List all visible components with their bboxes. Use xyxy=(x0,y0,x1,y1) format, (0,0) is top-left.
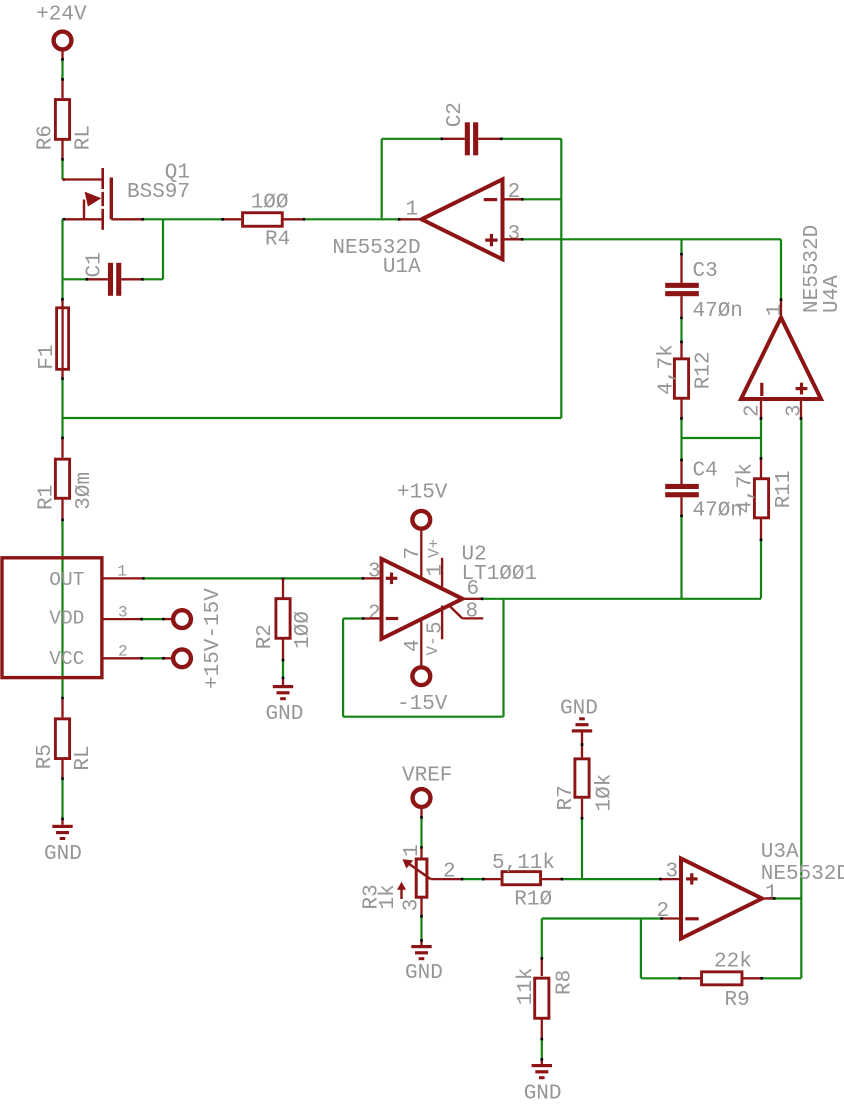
svg-text:6: 6 xyxy=(467,578,480,601)
svg-text:R8: R8 xyxy=(553,970,576,995)
svg-text:V-: V- xyxy=(424,636,442,655)
potentiometer R3 1k xyxy=(420,849,422,858)
resistor R9 22k xyxy=(681,977,700,979)
svg-text:RL: RL xyxy=(72,745,95,770)
resistor R4 100 xyxy=(224,218,241,220)
svg-text:C2: C2 xyxy=(444,102,467,127)
svg-text:R1Ø: R1Ø xyxy=(514,889,552,912)
wire VREF to R3 xyxy=(420,819,422,847)
resistor R5 RL xyxy=(61,699,63,717)
svg-text:3: 3 xyxy=(508,223,521,246)
op-amp U1A NE5532D xyxy=(422,179,503,259)
resistor R6 RL xyxy=(61,81,63,99)
svg-text:R2: R2 xyxy=(254,624,277,649)
svg-text:22k: 22k xyxy=(714,951,752,974)
svg-text:2: 2 xyxy=(368,603,381,626)
wire -input to R9 feedback xyxy=(640,919,642,979)
wire box pin1 to U2 +input xyxy=(145,577,363,579)
svg-text:1: 1 xyxy=(765,883,778,906)
svg-text:C4: C4 xyxy=(693,460,718,483)
svg-text:1: 1 xyxy=(764,304,787,317)
wire Q1 source down to C1/F1 node xyxy=(61,219,63,279)
U2 -input feedback loop xyxy=(364,617,382,619)
wire R4 to U1A input xyxy=(305,218,398,220)
svg-text:U3A: U3A xyxy=(761,841,799,864)
svg-text:GND: GND xyxy=(524,1082,562,1104)
svg-text:+15V: +15V xyxy=(397,482,448,505)
svg-text:C3: C3 xyxy=(693,260,718,283)
svg-text:3: 3 xyxy=(368,561,381,584)
capacitor C3 470n xyxy=(680,239,682,253)
wire F1 to R1 / feedback node xyxy=(61,380,63,437)
svg-text:4,7k: 4,7k xyxy=(734,463,757,513)
wire U4A pin3 down to U3A output node xyxy=(800,420,802,979)
wire R6 to Q1 drain xyxy=(61,161,63,180)
wire U1A pin3 to C3 and U4A xyxy=(523,238,781,240)
svg-text:GND: GND xyxy=(44,843,82,866)
svg-text:R7: R7 xyxy=(555,785,578,810)
ground GND below R8 xyxy=(532,1064,552,1067)
svg-text:R12: R12 xyxy=(692,351,715,389)
svg-text:8: 8 xyxy=(466,601,479,624)
wire C2 right down to pin2 net and long loop xyxy=(560,139,562,418)
wire gate net to R4 xyxy=(144,218,222,220)
op-amp U2 LT1001 xyxy=(420,529,422,579)
svg-text:2: 2 xyxy=(118,642,128,660)
wire R12/C4 node to U4A pin2 xyxy=(682,437,762,439)
svg-text:3Øm: 3Øm xyxy=(73,472,96,510)
ground GND below R2 xyxy=(282,679,284,685)
capacitor C1 xyxy=(64,278,87,280)
svg-text:R6: R6 xyxy=(35,125,58,150)
op-amp U3A NE5532D xyxy=(681,859,762,939)
wire -input down to R8 xyxy=(541,919,543,958)
U4A pin 2 stub xyxy=(760,399,762,418)
wire R9 to output node xyxy=(763,977,801,979)
U1A pin 2 stub xyxy=(503,198,522,200)
svg-text:OUT: OUT xyxy=(49,569,84,591)
U2 pin 8 stub xyxy=(450,606,462,618)
port +15V at VCC xyxy=(173,649,191,667)
svg-text:11k: 11k xyxy=(515,967,538,1005)
U4A pin 3 stub xyxy=(800,399,802,418)
svg-text:VREF: VREF xyxy=(402,765,452,788)
wire R5 to GND xyxy=(61,780,63,818)
svg-text:1: 1 xyxy=(406,199,419,222)
box pin 3 VDD xyxy=(103,618,141,620)
R3 wiper pin 2 out xyxy=(431,878,462,880)
U3A -input wire xyxy=(663,917,682,919)
svg-text:R5: R5 xyxy=(34,744,57,769)
resistor R12 4,7k xyxy=(680,343,682,358)
svg-text:R11: R11 xyxy=(773,470,796,508)
svg-text:1k: 1k xyxy=(377,884,400,909)
svg-text:U4A: U4A xyxy=(821,275,844,313)
svg-text:5: 5 xyxy=(425,621,448,634)
capacitor C4 470n xyxy=(680,438,682,459)
svg-text:GND: GND xyxy=(405,962,443,985)
svg-text:R9: R9 xyxy=(725,989,750,1012)
svg-text:F1: F1 xyxy=(36,344,59,369)
svg-text:1: 1 xyxy=(401,844,424,857)
svg-text:U1A: U1A xyxy=(383,256,421,279)
svg-text:RL: RL xyxy=(73,125,96,150)
svg-text:1: 1 xyxy=(425,564,448,577)
svg-text:1: 1 xyxy=(117,563,127,581)
svg-text:VDD: VDD xyxy=(49,608,84,630)
resistor R2 100 xyxy=(282,578,285,581)
wire U2 output to R11/C4 bottom node xyxy=(483,598,761,600)
wire long feedback to U1A pin2 net xyxy=(63,417,562,419)
svg-text:7: 7 xyxy=(402,547,425,560)
port -15V at VDD xyxy=(173,610,191,628)
U2 output pin 6 xyxy=(463,598,482,600)
resistor R10 5,11k xyxy=(485,878,501,880)
svg-text:2: 2 xyxy=(508,181,521,204)
svg-text:+24V: +24V xyxy=(36,4,87,27)
svg-text:GND: GND xyxy=(560,697,598,720)
resistor R11 4,7k xyxy=(760,460,762,479)
op-amp U4A NE5532D xyxy=(741,318,821,400)
svg-text:V+: V+ xyxy=(426,539,444,558)
svg-text:1ØØ: 1ØØ xyxy=(292,611,315,649)
svg-text:R4: R4 xyxy=(265,229,290,252)
resistor R1 30m xyxy=(61,439,63,458)
resistor R7 10k xyxy=(575,759,589,797)
box pin 1 OUT xyxy=(103,577,142,579)
svg-text:NE5532D: NE5532D xyxy=(761,863,844,886)
U4A pin1 wire from U1A pin3 net xyxy=(780,239,782,298)
svg-text:1ØØ: 1ØØ xyxy=(251,191,289,214)
svg-text:2: 2 xyxy=(443,861,456,884)
wire +24V to R6 xyxy=(61,61,63,79)
sense box component xyxy=(2,558,102,678)
wire feedback C2 left xyxy=(381,139,383,218)
svg-text:47Øn: 47Øn xyxy=(693,300,743,323)
svg-text:BSS97: BSS97 xyxy=(127,181,190,204)
resistor R8 11k xyxy=(541,960,543,977)
svg-text:1Øk: 1Øk xyxy=(594,774,617,812)
wire R1 to sense box xyxy=(61,521,63,697)
U3A output pin 1 xyxy=(762,897,773,899)
wire R10 to U3A +input xyxy=(563,878,660,880)
svg-text:3: 3 xyxy=(784,404,807,417)
svg-text:3: 3 xyxy=(400,899,423,912)
svg-text:-15V: -15V xyxy=(397,693,448,716)
wire C1 right up to gate net xyxy=(144,278,164,280)
U1A pin 3 stub xyxy=(503,238,522,240)
svg-text:3: 3 xyxy=(118,604,128,622)
ground GND below R5 xyxy=(61,820,63,825)
svg-text:C1: C1 xyxy=(84,252,107,277)
port -15V below U2 xyxy=(412,667,430,685)
svg-text:4: 4 xyxy=(402,639,425,652)
wire R7 to R10 net xyxy=(581,819,583,879)
fuse F1 xyxy=(61,279,63,298)
svg-text:4,7k: 4,7k xyxy=(655,344,678,394)
svg-text:5,11k: 5,11k xyxy=(492,852,555,875)
transistor Q1 BSS97 xyxy=(63,178,102,180)
svg-text:VCC: VCC xyxy=(49,648,84,670)
svg-text:GND: GND xyxy=(266,703,304,726)
box pin 2 VCC xyxy=(103,657,141,659)
svg-text:R1: R1 xyxy=(36,485,59,510)
svg-text:3: 3 xyxy=(666,861,679,884)
ground GND below R3 xyxy=(411,945,431,948)
capacitor C2 xyxy=(382,138,441,140)
svg-text:+15V-15V: +15V-15V xyxy=(202,588,225,689)
R3 pin 3 to GND xyxy=(420,898,422,916)
